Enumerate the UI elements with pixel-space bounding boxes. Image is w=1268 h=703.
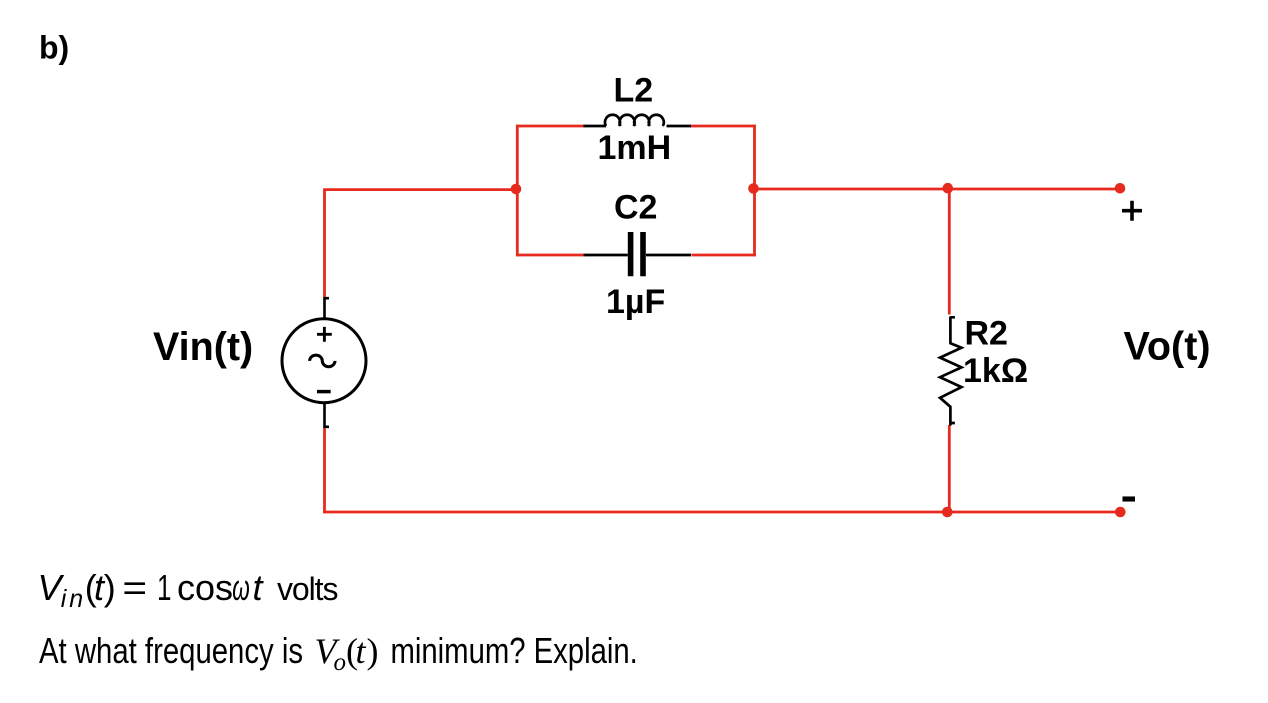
svg-text:1µF: 1µF xyxy=(606,283,665,321)
wire right vertical from top node down to resistor xyxy=(948,189,951,315)
voltage source V1 circle symbol xyxy=(282,319,366,403)
node output + terminal dot xyxy=(1115,183,1126,194)
voltage source minus sign xyxy=(317,390,331,394)
svg-text:L2: L2 xyxy=(614,71,654,109)
svg-text:Vo(t): Vo(t) xyxy=(1124,324,1211,368)
voltage source plus sign xyxy=(317,327,332,342)
wire right vertical from resistor down to bottom node xyxy=(948,425,951,512)
wire LC box bottom-right segment xyxy=(692,254,756,257)
wire left vertical from top corner down to source top stub xyxy=(323,189,326,298)
svg-text:1kΩ: 1kΩ xyxy=(963,352,1028,390)
node junction dot left of LC box xyxy=(511,184,522,195)
voltage source top pin stub xyxy=(325,297,330,319)
wire LC box bottom-left segment xyxy=(516,254,585,257)
node junction dot top of resistor branch xyxy=(943,183,954,194)
capacitor C2 symbol xyxy=(584,232,691,276)
wire LC box left edge xyxy=(516,125,519,257)
node junction dot right of LC box xyxy=(748,183,759,194)
svg-text:R2: R2 xyxy=(965,314,1008,352)
wire LC box top-left segment xyxy=(516,125,585,128)
wire LC box top-right segment xyxy=(690,125,756,128)
voltage source bottom pin stub xyxy=(325,403,330,428)
output plus sign xyxy=(1122,201,1142,221)
node output - terminal dot xyxy=(1115,507,1126,518)
inductor L2 symbol xyxy=(584,115,692,126)
voltage source sine symbol xyxy=(310,355,335,367)
wire top-left horizontal from source top corner to LC box xyxy=(323,188,517,191)
svg-text:b): b) xyxy=(39,30,69,66)
svg-text:1mH: 1mH xyxy=(598,129,672,167)
wire bottom horizontal from source to output - terminal xyxy=(323,511,1120,514)
svg-text:C2: C2 xyxy=(614,189,657,227)
svg-text:Vin(t): Vin(t) xyxy=(153,325,253,369)
wire LC box right edge xyxy=(753,125,756,257)
resistor R2 symbol xyxy=(940,317,962,426)
output minus sign xyxy=(1123,496,1136,501)
wire top horizontal from LC box to output + terminal xyxy=(755,188,1121,191)
node junction dot bottom of resistor branch xyxy=(942,507,953,518)
wire left vertical from source bottom stub down to bottom corner xyxy=(323,428,326,513)
